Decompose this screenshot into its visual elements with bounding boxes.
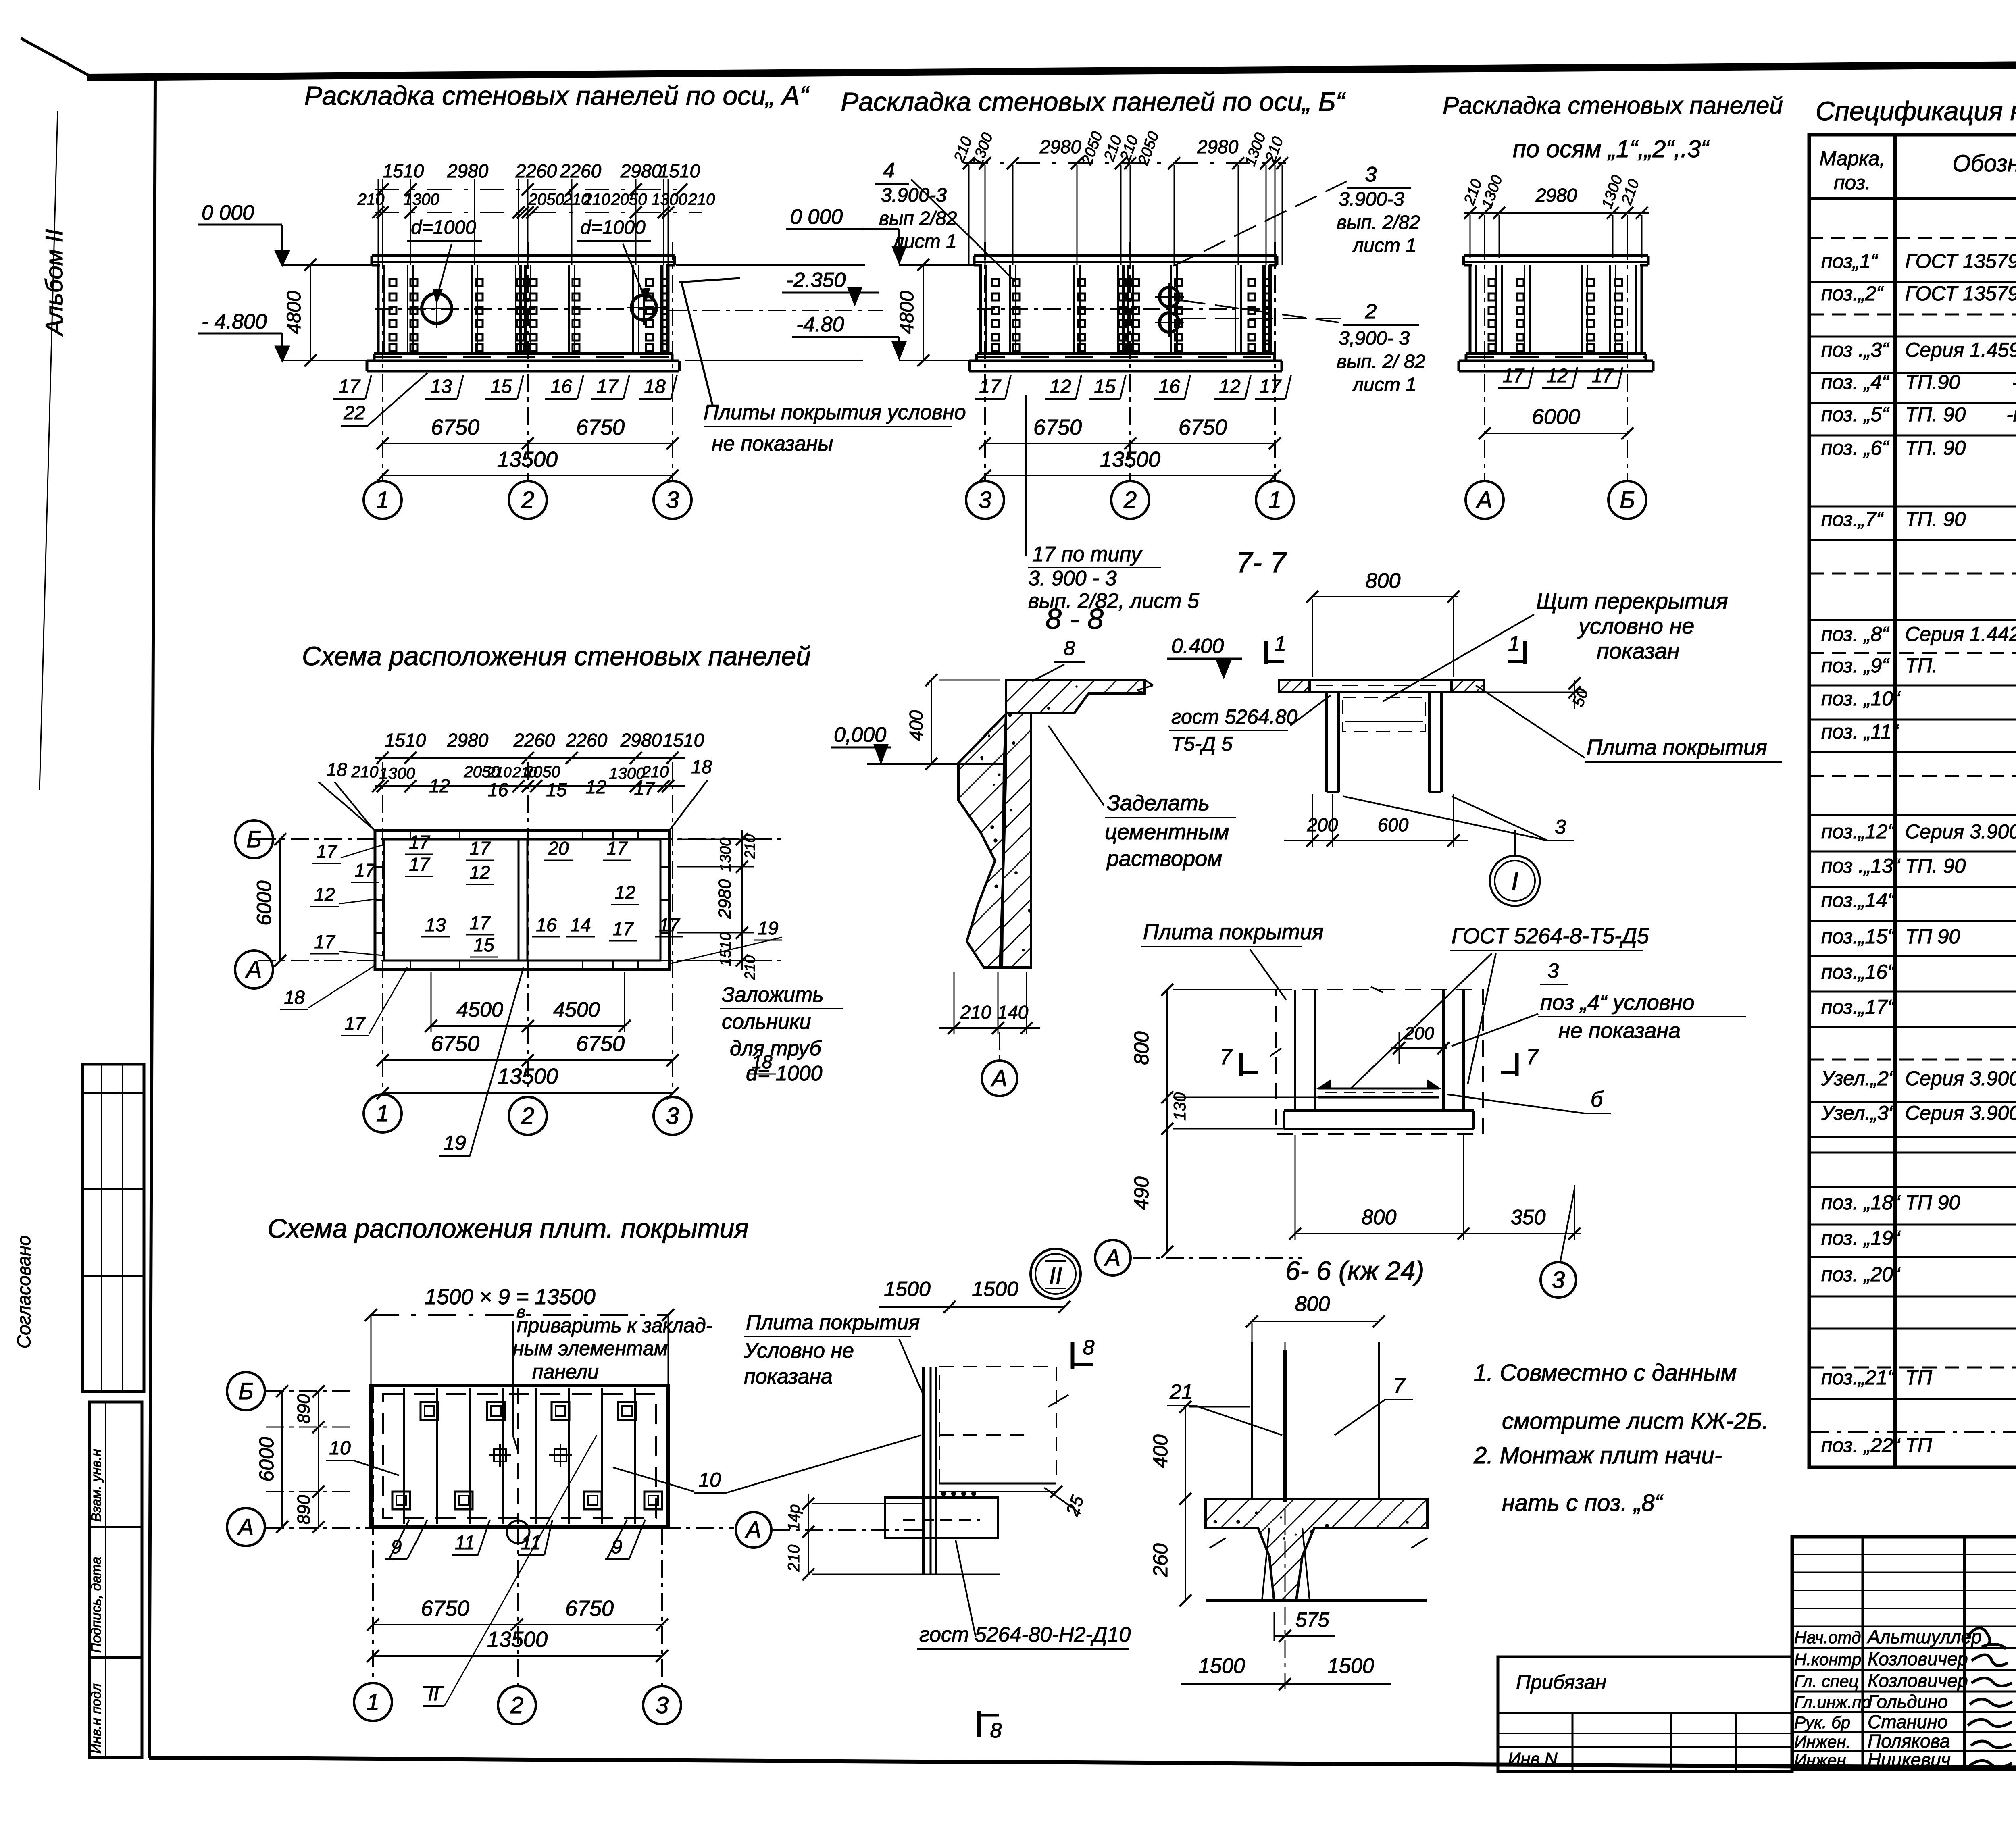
svg-text:1300: 1300 — [652, 191, 687, 208]
wall joint weld plates — [389, 279, 396, 286]
svg-text:1500: 1500 — [972, 1277, 1018, 1301]
svg-text:гост 5264.80: гост 5264.80 — [1171, 705, 1297, 728]
footing column lines — [1251, 1342, 1253, 1499]
section I detail circle I — [1490, 856, 1540, 906]
plates plan dim 890 890 6000 — [318, 1391, 319, 1527]
svg-text:вып. 2/ 82: вып. 2/ 82 — [1337, 351, 1425, 372]
wall panel joints — [1495, 265, 1497, 354]
dim line 2 elevation A — [375, 212, 702, 213]
svg-text:17: 17 — [1502, 365, 1525, 387]
svg-text:0 000: 0 000 — [790, 205, 843, 229]
plan vertical dim 6000 — [279, 839, 281, 961]
svg-text:490: 490 — [1130, 1176, 1153, 1210]
svg-text:17: 17 — [469, 912, 491, 933]
svg-text:600: 600 — [1378, 814, 1409, 835]
plates plan anchor squares bottom row — [392, 1492, 410, 1509]
svg-text:не показаны: не показаны — [712, 432, 833, 456]
svg-text:800: 800 — [1362, 1206, 1397, 1229]
svg-text:Рук. бр: Рук. бр — [1794, 1713, 1850, 1732]
svg-text:Заделать: Заделать — [1107, 791, 1210, 815]
svg-text:350: 350 — [1511, 1206, 1546, 1229]
svg-text:вып 2/82: вып 2/82 — [879, 208, 957, 229]
svg-text:3: 3 — [656, 1692, 669, 1719]
svg-text:ТП: ТП — [1905, 1366, 1933, 1389]
svg-text:15: 15 — [473, 934, 494, 955]
section 6-6 left wall — [1294, 990, 1296, 1111]
dim 13500 elevation B — [985, 475, 1275, 476]
svg-text:Подпись, дата: Подпись, дата — [89, 1557, 104, 1653]
plan dim 13500 — [383, 1092, 673, 1094]
detail II plate dashed — [939, 1367, 1056, 1483]
svg-text:210: 210 — [351, 763, 379, 781]
svg-text:поз. „20“: поз. „20“ — [1821, 1263, 1901, 1286]
wall elevation base — [374, 352, 672, 355]
wall elevation body — [979, 265, 982, 354]
svg-text:условно не: условно не — [1577, 613, 1694, 639]
svg-text:7: 7 — [1393, 1374, 1406, 1398]
section I dim 800 top — [1312, 596, 1458, 597]
svg-text:17: 17 — [469, 838, 491, 859]
svg-text:2260: 2260 — [515, 160, 557, 181]
sheet top edge band — [87, 61, 2016, 77]
svg-text:6000: 6000 — [1532, 405, 1580, 429]
svg-text:890: 890 — [294, 1394, 314, 1424]
svg-text:Серия 1.442.1-2: Серия 1.442.1-2 — [1905, 623, 2016, 645]
plan axis circles 1 2 3 — [364, 1094, 402, 1132]
svg-text:1500: 1500 — [1198, 1654, 1245, 1678]
svg-text:Инв.н подл: Инв.н подл — [89, 1683, 104, 1754]
svg-text:Плита покрытия: Плита покрытия — [1143, 920, 1324, 944]
hole level centerline — [375, 308, 671, 310]
plates plan axis lines — [266, 1390, 355, 1392]
svg-text:17: 17 — [314, 931, 335, 952]
svg-text:17: 17 — [979, 376, 1002, 397]
plan axis circle B — [235, 820, 273, 858]
svg-text:19: 19 — [758, 918, 778, 938]
svg-text:18: 18 — [326, 759, 347, 780]
svg-text:поз.: поз. — [1834, 171, 1871, 194]
svg-text:1300: 1300 — [379, 765, 415, 782]
svg-text:3: 3 — [666, 487, 679, 513]
svg-text:Станино: Станино — [1868, 1711, 1947, 1732]
svg-text:22: 22 — [343, 402, 365, 424]
svg-text:Согласовано: Согласовано — [13, 1236, 34, 1349]
svg-text:2050: 2050 — [528, 191, 564, 208]
svg-text:6750: 6750 — [431, 1032, 479, 1056]
axis circles — [364, 481, 402, 519]
leader to plity pokrytiya note — [681, 282, 713, 406]
svg-text:18: 18 — [644, 376, 666, 397]
axis centerlines below wall — [382, 242, 383, 481]
svg-text:Щит перекрытия: Щит перекрытия — [1536, 588, 1728, 614]
dim 6750 6750 elevation A — [383, 443, 673, 444]
title block signatures — [1968, 1628, 2006, 1649]
svg-text:200: 200 — [1404, 1024, 1434, 1043]
svg-text:400: 400 — [906, 710, 927, 741]
svg-text:7: 7 — [1526, 1045, 1539, 1069]
svg-text:Марка,: Марка, — [1819, 147, 1885, 170]
plan right vertical dims — [741, 830, 743, 970]
svg-text:210: 210 — [741, 834, 758, 859]
svg-text:3: 3 — [1365, 163, 1377, 186]
wall joint weld plates — [992, 279, 999, 286]
svg-text:Серия 3.900-3 вып. 2/82: Серия 3.900-3 вып. 2/82 — [1905, 1067, 2016, 1090]
svg-text:поз.„17“: поз.„17“ — [1821, 996, 1895, 1018]
svg-text:2050: 2050 — [611, 191, 647, 208]
svg-text:1510: 1510 — [385, 730, 426, 751]
svg-text:17: 17 — [409, 854, 430, 875]
small stamp grid — [1572, 1713, 1574, 1771]
svg-text:поз. „11“: поз. „11“ — [1821, 720, 1899, 743]
svg-text:2980: 2980 — [447, 730, 489, 751]
paper crease line — [40, 111, 58, 790]
detail II wall verticals — [922, 1367, 925, 1574]
svg-text:Козловичер: Козловичер — [1868, 1670, 1968, 1691]
svg-text:13: 13 — [425, 914, 446, 935]
section 8-8 axis circle A — [982, 1061, 1017, 1096]
plates plan label 10 right leader — [613, 1467, 694, 1492]
svg-text:17: 17 — [338, 376, 361, 397]
svg-text:1: 1 — [376, 1101, 389, 1127]
svg-text:d=1000: d=1000 — [580, 217, 646, 238]
footing center bar — [1283, 1350, 1287, 1502]
svg-text:поз.„7“: поз.„7“ — [1821, 508, 1884, 531]
svg-text:1: 1 — [376, 487, 389, 513]
svg-text:Нач.отд: Нач.отд — [1794, 1628, 1861, 1647]
plan panel joint ticks top — [410, 830, 411, 839]
plates plan dim 13500 — [373, 1655, 662, 1657]
svg-text:Т5-Д 5: Т5-Д 5 — [1171, 732, 1233, 755]
svg-text:210: 210 — [960, 1002, 991, 1023]
plates plan middle split — [517, 1388, 519, 1524]
svg-text:Полякова: Полякова — [1868, 1731, 1950, 1752]
svg-text:поз.„14“: поз.„14“ — [1821, 889, 1895, 911]
svg-text:ГОСТ 13579-78: ГОСТ 13579-78 — [1905, 282, 2016, 305]
svg-text:2260: 2260 — [566, 730, 608, 751]
wall elevation body — [1469, 265, 1472, 354]
svg-text:1: 1 — [1268, 487, 1281, 513]
svg-text:3: 3 — [979, 487, 991, 513]
svg-text:Гольдино: Гольдино — [1868, 1691, 1948, 1712]
svg-text:3: 3 — [1552, 1267, 1565, 1293]
svg-text:17: 17 — [316, 841, 337, 862]
svg-text:8 - 8: 8 - 8 — [1045, 603, 1104, 635]
section I walls — [1325, 692, 1328, 792]
svg-text:6750: 6750 — [421, 1596, 469, 1621]
svg-text:поз. „19“: поз. „19“ — [1821, 1227, 1901, 1249]
svg-text:6750: 6750 — [1179, 415, 1227, 439]
detail II bottom angle — [939, 1483, 1056, 1485]
svg-text:Раскладка стеновых панелей: Раскладка стеновых панелей — [1443, 92, 1783, 119]
svg-text:поз. „6“: поз. „6“ — [1821, 437, 1889, 459]
wall panel joints — [1009, 265, 1011, 354]
svg-text:показан: показан — [1597, 638, 1680, 664]
svg-text:210: 210 — [583, 191, 610, 208]
svg-text:2260: 2260 — [513, 730, 555, 751]
title block outer — [1792, 1537, 2016, 1769]
svg-text:ТП.90: ТП.90 — [1905, 371, 1960, 393]
svg-text:панели: панели — [532, 1361, 599, 1383]
svg-text:-кжи. 2.3.00.02: -кжи. 2.3.00.02 — [2006, 403, 2016, 426]
svg-text:1510: 1510 — [383, 160, 424, 181]
plates plan center anchors — [494, 1449, 506, 1461]
svg-text:3,900- 3: 3,900- 3 — [1339, 328, 1410, 349]
section I dim 50 right — [1484, 692, 1587, 693]
svg-text:0 000: 0 000 — [202, 201, 254, 225]
svg-text:12: 12 — [469, 862, 490, 883]
svg-text:не показана: не показана — [1558, 1019, 1681, 1043]
dim line elevation B — [964, 162, 1286, 164]
svg-text:3: 3 — [666, 1103, 679, 1129]
svg-text:I: I — [1511, 867, 1518, 896]
svg-text:- 4.800: - 4.800 — [202, 310, 267, 333]
svg-text:17: 17 — [612, 918, 634, 939]
svg-text:ГОСТ 13579-78: ГОСТ 13579-78 — [1905, 250, 2016, 273]
svg-text:7- 7: 7- 7 — [1236, 547, 1287, 579]
svg-text:11: 11 — [455, 1532, 475, 1554]
svg-text:поз.„16“: поз.„16“ — [1821, 961, 1895, 983]
svg-text:2. Монтаж плит начи-: 2. Монтаж плит начи- — [1473, 1442, 1722, 1469]
svg-text:17: 17 — [659, 914, 680, 935]
detail II cut mark 8 bottom — [977, 1711, 981, 1737]
vertical dim 4800 elevation B — [923, 265, 924, 360]
svg-text:Серия 3.900-3 вып. 4/82. Ч1: Серия 3.900-3 вып. 4/82. Ч1 — [1905, 820, 2016, 843]
svg-text:2: 2 — [1365, 300, 1377, 323]
svg-text:Плиты покрытия условно: Плиты покрытия условно — [704, 401, 966, 424]
dim line 1 elevation A — [375, 189, 685, 190]
svg-text:для труб: для труб — [730, 1037, 822, 1060]
title block signature rows — [1792, 1647, 2016, 1649]
svg-text:130: 130 — [1170, 1092, 1189, 1121]
svg-text:б: б — [1591, 1087, 1604, 1111]
svg-text:Обозначение: Обозначение — [1952, 150, 2016, 177]
title block left verticals — [1862, 1537, 1864, 1769]
svg-text:1500: 1500 — [1327, 1654, 1374, 1678]
svg-text:15: 15 — [546, 779, 567, 800]
frame left border — [149, 79, 155, 1758]
wall panel joints — [407, 265, 408, 354]
svg-text:2: 2 — [521, 1103, 534, 1129]
frame bottom border — [149, 1758, 2016, 1771]
detail II dims 140 210 — [808, 1494, 809, 1574]
svg-text:21: 21 — [1169, 1380, 1193, 1404]
left stamp table — [90, 1402, 142, 1758]
svg-text:1: 1 — [1508, 632, 1520, 656]
plates plan axis circles 123 — [354, 1683, 392, 1721]
svg-text:сольники: сольники — [722, 1010, 811, 1034]
svg-text:16: 16 — [1158, 376, 1180, 397]
svg-text:17: 17 — [344, 1013, 366, 1034]
svg-text:210: 210 — [688, 191, 715, 208]
svg-text:140: 140 — [998, 1002, 1029, 1023]
svg-text:12: 12 — [1546, 365, 1568, 387]
svg-text:0,000: 0,000 — [834, 723, 886, 747]
svg-text:3: 3 — [1547, 959, 1559, 982]
svg-text:по осям „1“,„2“,.3“: по осям „1“,„2“,.3“ — [1513, 135, 1710, 162]
wall joint weld plates — [1489, 279, 1495, 286]
svg-text:17: 17 — [596, 376, 619, 397]
svg-text:Гл. спец: Гл. спец — [1794, 1672, 1859, 1691]
svg-text:А: А — [1476, 487, 1493, 513]
svg-text:Инжен.: Инжен. — [1794, 1732, 1851, 1751]
svg-text:4800: 4800 — [896, 291, 918, 334]
svg-text:-4.80: -4.80 — [796, 313, 844, 336]
svg-text:поз.„21“: поз.„21“ — [1821, 1366, 1895, 1389]
svg-text:Узел.„3“: Узел.„3“ — [1821, 1102, 1896, 1124]
svg-text:890: 890 — [294, 1495, 314, 1525]
footing vertical dims 400 260 — [1185, 1407, 1186, 1600]
pipe hole circles — [422, 293, 452, 323]
svg-text:Инв.N: Инв.N — [1508, 1749, 1558, 1769]
svg-text:Условно не: Условно не — [744, 1339, 854, 1363]
svg-text:II: II — [1049, 1263, 1062, 1289]
svg-text:8: 8 — [1064, 637, 1075, 660]
svg-text:поз .„3“: поз .„3“ — [1821, 339, 1889, 361]
svg-text:13500: 13500 — [498, 1064, 558, 1088]
svg-text:18: 18 — [691, 756, 712, 777]
svg-text:3. 900 - 3: 3. 900 - 3 — [1028, 567, 1117, 590]
svg-text:13500: 13500 — [497, 447, 558, 472]
svg-text:А: А — [237, 1514, 254, 1540]
svg-text:2980: 2980 — [447, 160, 489, 181]
footing break marks — [1210, 1538, 1226, 1548]
svg-text:6000: 6000 — [253, 880, 275, 925]
svg-text:17: 17 — [1259, 376, 1282, 397]
section 6-6 bottom dims 800 350 — [1295, 1233, 1474, 1234]
svg-text:800: 800 — [1366, 569, 1401, 593]
svg-text:поз. „18“: поз. „18“ — [1821, 1191, 1901, 1214]
plan axis lines — [258, 838, 786, 840]
axis circles — [1466, 481, 1504, 519]
svg-text:0.400: 0.400 — [1171, 635, 1224, 658]
svg-text:6750: 6750 — [576, 415, 625, 439]
svg-text:вып. 2/82: вып. 2/82 — [1337, 212, 1420, 233]
svg-text:Альбом II: Альбом II — [41, 229, 68, 337]
svg-text:200: 200 — [1307, 814, 1338, 835]
svg-text:800: 800 — [1130, 1031, 1153, 1065]
svg-text:2980: 2980 — [620, 160, 662, 181]
dim line elevation 123 — [1464, 212, 1649, 214]
svg-text:1: 1 — [1274, 632, 1286, 656]
svg-text:Раскладка стеновых панелей по: Раскладка стеновых панелей по оси„ А“ — [304, 81, 810, 110]
small stamp box — [1498, 1657, 1792, 1771]
svg-text:10: 10 — [698, 1469, 721, 1491]
svg-text:Б: Б — [246, 826, 262, 853]
svg-text:ТП. 90: ТП. 90 — [1905, 508, 1966, 531]
svg-text:Б: Б — [238, 1378, 254, 1404]
svg-text:6- 6 (кж 24): 6- 6 (кж 24) — [1285, 1256, 1424, 1286]
plates plan detail circle marker — [507, 1521, 529, 1543]
plan label 18 top-left — [335, 782, 375, 831]
wall elevation body — [377, 265, 380, 354]
svg-text:ТП 90: ТП 90 — [1905, 925, 1960, 948]
svg-text:12: 12 — [314, 884, 335, 905]
svg-text:поз. „8“: поз. „8“ — [1821, 623, 1889, 645]
svg-text:800: 800 — [1295, 1292, 1330, 1316]
section I shield dashed — [1343, 697, 1425, 732]
extension lines elevation A dims — [378, 179, 379, 265]
svg-text:показана: показана — [744, 1365, 833, 1388]
svg-text:Спецификация к элементам расп: Спецификация к элементам расположения на… — [1816, 96, 2016, 126]
svg-text:ТП.: ТП. — [1905, 654, 1938, 677]
plan side wall joint ticks — [375, 866, 384, 868]
svg-text:Козловичер: Козловичер — [1868, 1648, 1968, 1669]
spec table column lines — [1893, 135, 1897, 1467]
axis circles — [966, 481, 1004, 519]
detail II dim 25 — [1044, 1488, 1081, 1514]
left approval table — [83, 1064, 144, 1392]
svg-text:поз „4“ условно: поз „4“ условно — [1540, 990, 1695, 1015]
svg-text:-2.350: -2.350 — [786, 268, 846, 292]
svg-text:14р: 14р — [785, 1504, 803, 1531]
svg-text:поз. „5“: поз. „5“ — [1821, 403, 1889, 426]
vertical dim 4800 — [310, 265, 311, 360]
svg-text:2980: 2980 — [1535, 185, 1577, 206]
svg-text:2980: 2980 — [1039, 136, 1081, 157]
svg-text:16: 16 — [487, 779, 508, 800]
svg-text:6000: 6000 — [255, 1437, 278, 1481]
plan dim 6750 6750 — [383, 1059, 673, 1061]
plates plan axis circle A — [227, 1508, 265, 1546]
svg-text:1: 1 — [367, 1689, 379, 1715]
axis centerlines below wall — [1484, 242, 1485, 481]
svg-text:поз.„12“: поз.„12“ — [1821, 820, 1895, 843]
svg-text:Альтшуллер: Альтшуллер — [1866, 1626, 1982, 1647]
plates plan anchor squares top row — [421, 1402, 438, 1420]
svg-text:15: 15 — [1094, 376, 1116, 397]
svg-text:смотрите лист КЖ-2Б.: смотрите лист КЖ-2Б. — [1502, 1408, 1768, 1434]
extension lines elevation B — [968, 165, 970, 265]
svg-text:поз. „10“: поз. „10“ — [1821, 687, 1901, 710]
svg-text:13: 13 — [430, 376, 452, 397]
section I cut mark 1 left — [1264, 641, 1268, 664]
section 6-6 axis circle A — [1095, 1240, 1131, 1275]
svg-text:17: 17 — [634, 778, 655, 799]
svg-text:1300: 1300 — [404, 191, 439, 208]
svg-text:17: 17 — [606, 838, 628, 859]
svg-text:13500: 13500 — [487, 1627, 548, 1652]
svg-text:3: 3 — [1555, 816, 1566, 838]
dim 6750 6750 elevation B — [985, 443, 1275, 444]
svg-text:нать с поз. „8“: нать с поз. „8“ — [1502, 1490, 1664, 1516]
svg-text:поз.„15“: поз.„15“ — [1821, 925, 1895, 948]
spec table outer border — [1809, 135, 2016, 1467]
plan inner wall — [384, 839, 660, 961]
section I deck slab — [1310, 679, 1452, 681]
svg-text:Плита покрытия: Плита покрытия — [746, 1311, 920, 1334]
svg-text:1500: 1500 — [884, 1277, 931, 1301]
svg-text:Взам. унв.н: Взам. унв.н — [89, 1449, 104, 1522]
spec table header row line — [1809, 197, 2016, 200]
svg-text:поз„1“: поз„1“ — [1821, 250, 1878, 273]
section 6-6 vertical dims 800 130 490 — [1166, 990, 1168, 1252]
detail II break mark — [1048, 1395, 1068, 1407]
svg-text:Серия 3.900-3 вып. 2/82: Серия 3.900-3 вып. 2/82 — [1905, 1102, 2016, 1124]
section 6-6 outer dashed box — [1276, 990, 1483, 1134]
svg-text:поз. „4“: поз. „4“ — [1821, 371, 1889, 393]
svg-text:поз.„2“: поз.„2“ — [1821, 282, 1884, 305]
svg-text:400: 400 — [1149, 1434, 1172, 1468]
section 6-6 axis circle 3 — [1541, 1262, 1576, 1298]
svg-text:Ницкевич: Ницкевич — [1868, 1749, 1951, 1770]
svg-text:II: II — [428, 1682, 439, 1705]
plates plan inner dashed — [383, 1394, 656, 1518]
svg-text:6750: 6750 — [431, 415, 479, 439]
wall elevation cap — [974, 254, 1277, 257]
svg-text:Гл.инж.пр: Гл.инж.пр — [1794, 1693, 1871, 1712]
dim 13500 elevation A — [383, 475, 673, 476]
svg-text:Прибязан: Прибязан — [1516, 1671, 1606, 1694]
